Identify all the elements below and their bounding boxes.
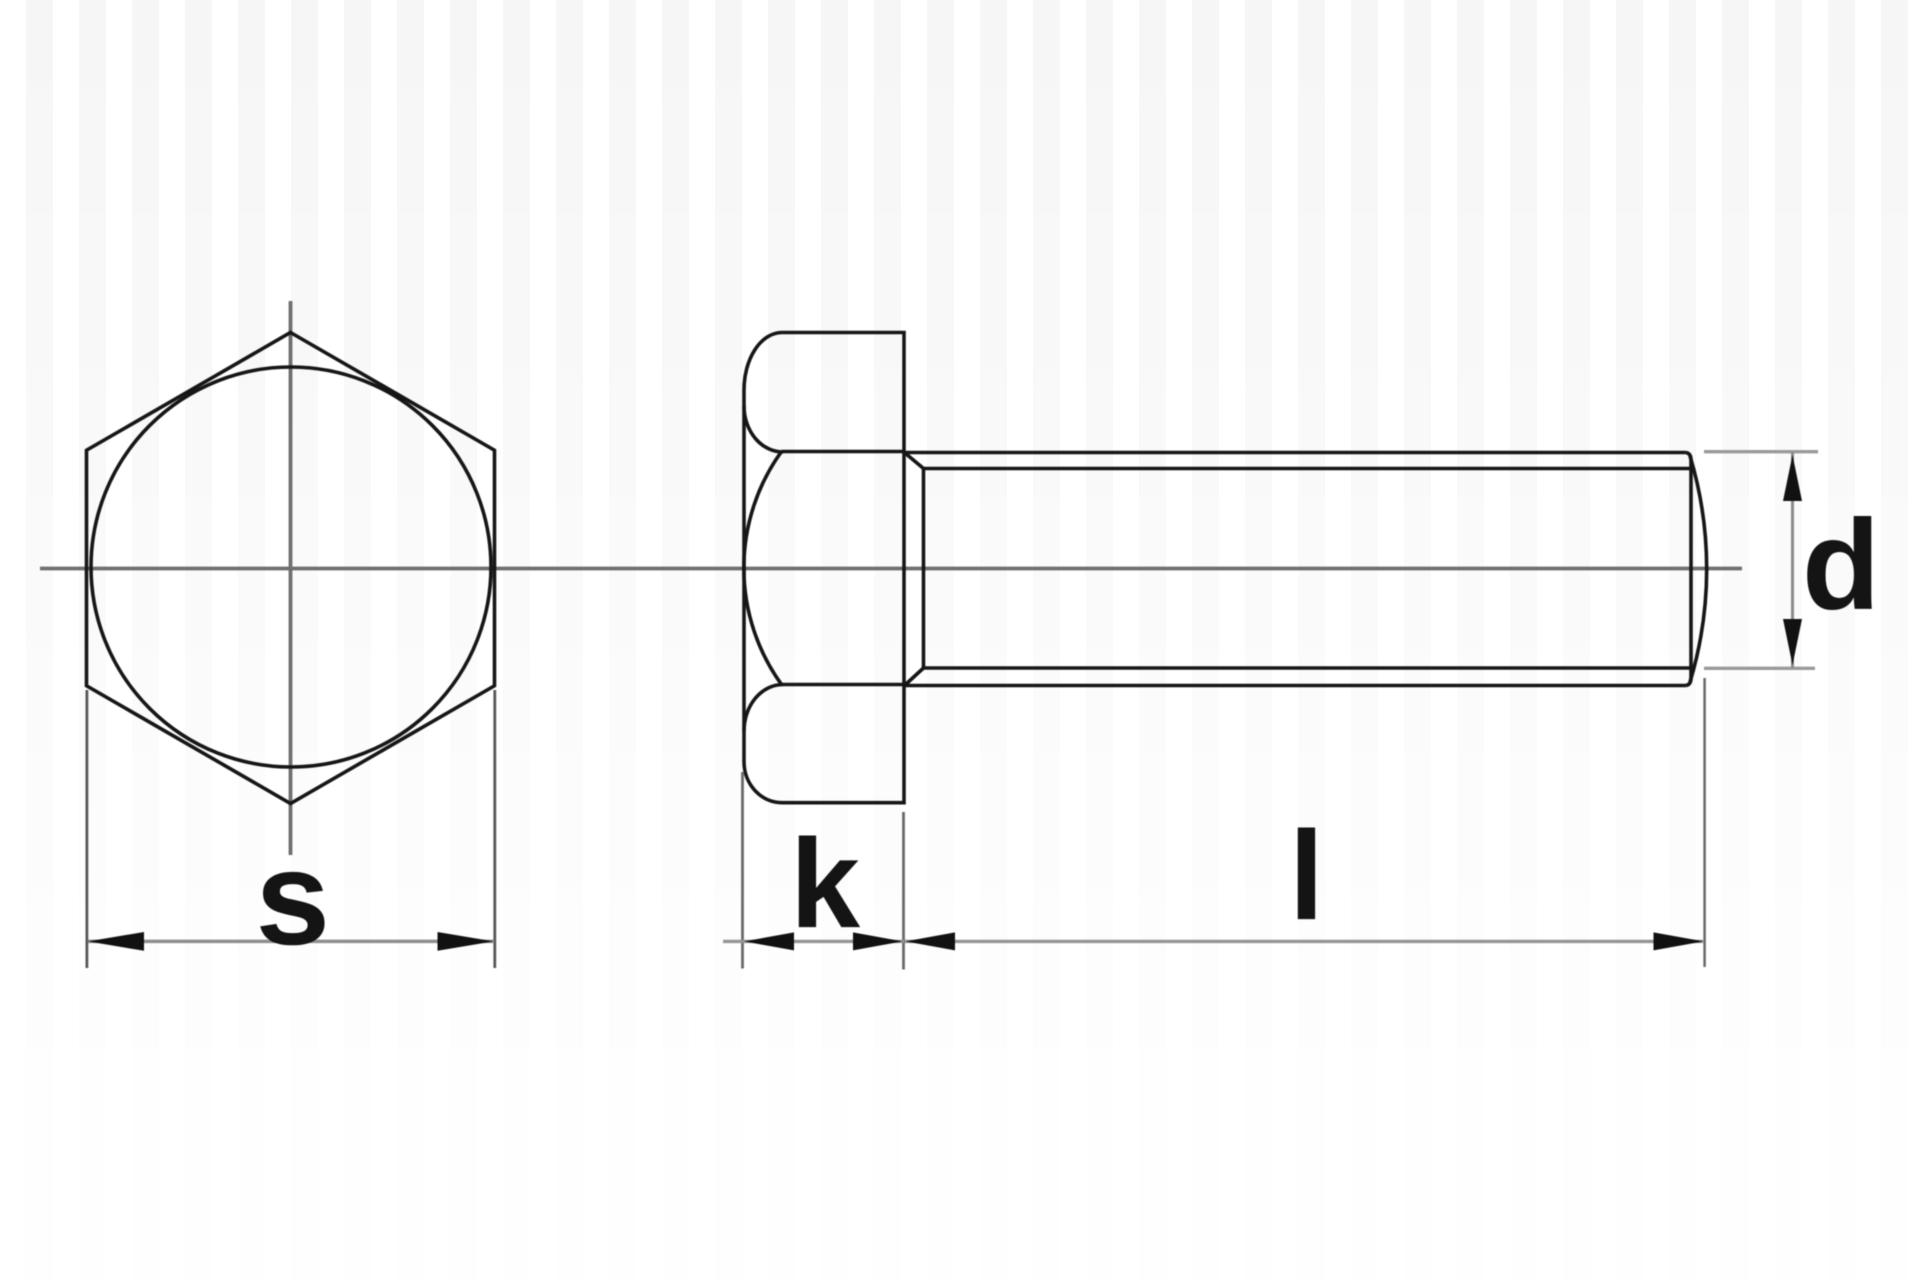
- d extension line top: [1704, 450, 1818, 453]
- k extension line left: [741, 772, 744, 969]
- k extension line right: [902, 812, 905, 970]
- l arrow left: [906, 932, 956, 950]
- facet line lower: [782, 683, 905, 687]
- l extension line right: [1703, 678, 1706, 967]
- shank bottom outer line: [904, 684, 1686, 688]
- d arrow top: [1783, 455, 1802, 501]
- svg-text:s: s: [256, 824, 331, 973]
- vertical centerline: [289, 301, 293, 855]
- thread chamfer diagonal top: [905, 453, 924, 469]
- s arrow right: [438, 932, 494, 951]
- facet line upper: [782, 450, 905, 454]
- bolt end face: [1686, 453, 1691, 686]
- l arrow right: [1654, 932, 1704, 950]
- d arrow bottom: [1783, 619, 1802, 665]
- horizontal centerline: [40, 567, 1742, 571]
- k dimension line: [723, 940, 904, 943]
- svg-text:l: l: [1289, 805, 1324, 946]
- l dimension line: [905, 940, 1703, 943]
- bolt head side view outline: [744, 333, 904, 803]
- k arrow left: [744, 932, 794, 950]
- shank top outer line: [904, 451, 1686, 455]
- s dimension line: [88, 940, 494, 944]
- inscribed chamfer circle: [91, 367, 491, 767]
- thread top inner line: [924, 467, 1693, 471]
- middle facet chamfer arc: [744, 452, 782, 685]
- thread start vertical: [922, 469, 926, 669]
- hexagon head outline (front view): [87, 333, 495, 804]
- svg-text:d: d: [1802, 494, 1880, 637]
- thread bottom inner line: [924, 666, 1693, 670]
- d dimension line: [1791, 452, 1794, 668]
- k arrow right: [853, 932, 903, 950]
- d extension line bottom: [1704, 667, 1815, 670]
- s extension line right: [493, 690, 496, 968]
- thread chamfer diagonal bottom: [905, 668, 924, 685]
- bottom facet chamfer arc: [744, 685, 783, 732]
- top facet chamfer arc: [744, 406, 783, 452]
- svg-text:k: k: [790, 813, 861, 954]
- bolt end chamfer arc: [1690, 456, 1707, 682]
- s extension line left: [86, 690, 89, 968]
- s arrow left: [88, 932, 144, 951]
